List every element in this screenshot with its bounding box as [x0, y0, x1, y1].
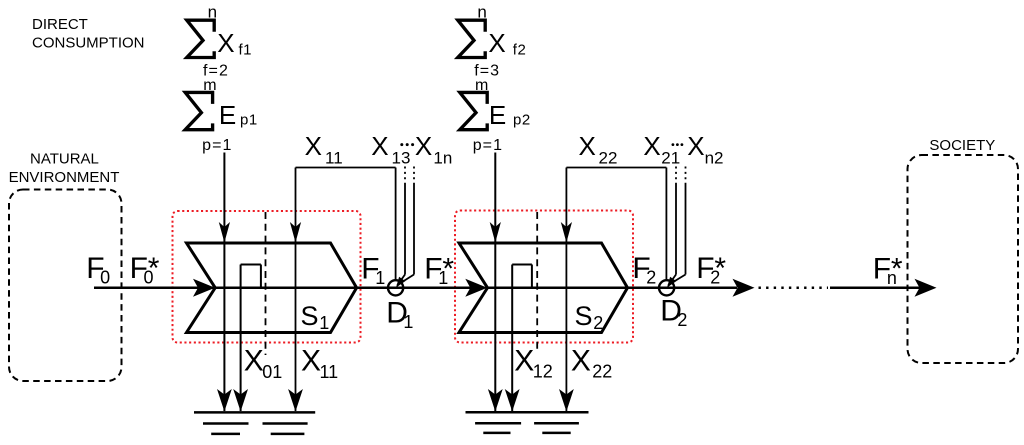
svg-text:1: 1	[375, 268, 385, 288]
svg-text:2: 2	[593, 313, 603, 333]
svg-text:ENVIRONMENT: ENVIRONMENT	[9, 169, 120, 186]
label S1	[301, 301, 330, 333]
svg-text:S: S	[575, 301, 593, 331]
label Xn2	[687, 131, 723, 168]
wire Fn* flow into society	[830, 279, 937, 297]
svg-text:X: X	[415, 131, 432, 161]
wire F0 main flow into S1	[94, 279, 357, 297]
wire Xn2 into node D2	[671, 167, 686, 284]
node D1 circle	[388, 280, 403, 295]
label F0*	[130, 252, 160, 287]
dots between X21 and Xn2	[672, 143, 684, 146]
svg-text:*: *	[442, 252, 454, 285]
svg-text:11: 11	[325, 149, 343, 168]
wire direct consumption input 2	[488, 153, 503, 412]
label F1	[361, 252, 385, 288]
label DIRECT CONSUMPTION	[32, 16, 145, 52]
natural environment box	[9, 190, 122, 382]
tap symbol in S2	[505, 265, 532, 412]
svg-text:13: 13	[392, 149, 411, 168]
label X11 bottom	[301, 345, 338, 382]
svg-text:X: X	[244, 345, 264, 378]
label X22 top	[579, 131, 618, 168]
svg-text:X: X	[371, 131, 388, 161]
svg-text:CONSUMPTION: CONSUMPTION	[32, 35, 145, 52]
wire X22 feedback loop	[559, 168, 666, 412]
svg-text:22: 22	[599, 149, 618, 168]
label X13	[371, 131, 410, 168]
label F2*	[696, 252, 726, 287]
svg-text:2: 2	[677, 310, 687, 330]
svg-text:X: X	[643, 131, 660, 161]
wire F2 flow from S2	[488, 279, 755, 297]
svg-text:SOCIETY: SOCIETY	[929, 137, 995, 154]
wire X21 into node D2	[668, 167, 676, 286]
arrowhead into node D2	[667, 277, 676, 288]
label Fn*	[873, 252, 903, 288]
label S2	[575, 301, 604, 333]
wire F1 flow from S1 to S2	[357, 279, 488, 297]
svg-text:*: *	[714, 252, 726, 285]
tap symbol in S1	[233, 265, 261, 412]
red boundary box 1	[173, 211, 361, 343]
svg-text:p=1: p=1	[473, 137, 503, 154]
sum symbol sigma E p2	[460, 77, 531, 154]
svg-text:0: 0	[100, 267, 110, 287]
dashed partition line in S1	[265, 212, 267, 355]
svg-text:f2: f2	[513, 42, 527, 59]
svg-text:1n: 1n	[433, 149, 452, 168]
dots between X13 and X1n	[400, 143, 414, 146]
dashed partition line in S2	[536, 212, 538, 352]
svg-text:NATURAL: NATURAL	[30, 151, 99, 168]
svg-text:E: E	[219, 100, 236, 130]
svg-text:2: 2	[646, 268, 656, 288]
svg-text:*: *	[891, 252, 903, 285]
ground symbol 2	[466, 412, 589, 433]
label D2	[660, 294, 687, 330]
svg-text:n: n	[208, 3, 217, 22]
svg-text:p1: p1	[240, 112, 258, 129]
svg-text:S: S	[301, 301, 319, 331]
label X01	[244, 345, 283, 382]
svg-text:*: *	[148, 252, 160, 285]
label F1*	[424, 252, 454, 288]
wire X13 into node D1	[397, 167, 405, 286]
svg-text:X: X	[687, 131, 704, 161]
label X1n	[415, 131, 452, 168]
svg-text:X: X	[488, 28, 505, 58]
svg-text:m: m	[475, 77, 488, 94]
svg-text:1: 1	[319, 313, 329, 333]
svg-text:01: 01	[262, 362, 282, 382]
label D1	[386, 296, 413, 332]
block S2 chevron	[459, 243, 628, 333]
svg-text:n: n	[477, 3, 486, 22]
label X22 bottom	[571, 345, 612, 382]
label X12	[514, 345, 553, 382]
block S1 chevron	[187, 243, 357, 333]
sum symbol sigma X f2	[458, 3, 527, 80]
svg-text:X: X	[305, 131, 322, 161]
svg-text:n2: n2	[705, 149, 724, 168]
svg-text:X: X	[571, 345, 591, 378]
svg-text:E: E	[489, 100, 506, 130]
svg-text:1: 1	[403, 312, 413, 332]
svg-text:X: X	[514, 345, 534, 378]
arrowhead into node D1	[396, 277, 405, 288]
node D2 circle	[659, 280, 674, 295]
svg-text:12: 12	[533, 361, 553, 381]
svg-text:X: X	[579, 131, 596, 161]
svg-text:X: X	[217, 28, 234, 58]
svg-text:21: 21	[661, 149, 680, 168]
label X21	[643, 131, 680, 168]
society box	[908, 155, 1019, 363]
wire direct consumption input 1	[217, 153, 232, 412]
svg-text:DIRECT: DIRECT	[32, 16, 88, 33]
wire X11 feedback loop	[288, 168, 396, 412]
ground symbol 1	[194, 412, 315, 434]
label NATURAL ENVIRONMENT	[9, 151, 120, 186]
svg-text:p2: p2	[513, 112, 531, 129]
svg-text:X: X	[301, 345, 321, 378]
svg-text:f1: f1	[239, 42, 253, 59]
red boundary box 2	[455, 211, 633, 343]
label F0	[86, 252, 110, 287]
label X11 top	[305, 131, 343, 168]
wire dotted continuation	[759, 287, 829, 290]
svg-text:p=1: p=1	[202, 137, 232, 154]
sum symbol sigma E p1	[185, 77, 257, 154]
wire X1n into node D1	[400, 167, 415, 284]
label F2	[632, 252, 656, 287]
svg-text:11: 11	[320, 362, 339, 382]
sum symbol sigma X f1	[187, 3, 252, 80]
svg-text:22: 22	[592, 361, 612, 381]
svg-text:m: m	[203, 77, 216, 94]
